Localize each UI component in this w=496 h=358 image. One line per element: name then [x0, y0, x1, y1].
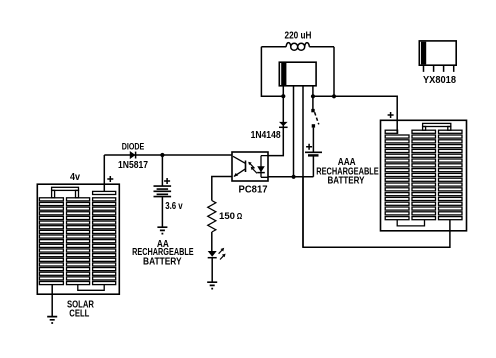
IC pin 3 wire down to bottom return	[302, 86, 304, 248]
solar cell PV1 column 2 fingers	[67, 198, 90, 285]
svg-text:BATTERY: BATTERY	[328, 175, 365, 186]
battery BT2 AAA plates	[305, 152, 322, 155]
optocoupler U2 PC817 box	[232, 152, 268, 181]
IC U1 YX8018 block	[279, 62, 316, 86]
node junction pin4 rail	[311, 94, 315, 98]
switch S1	[311, 109, 319, 128]
svg-text:Ω: Ω	[237, 211, 243, 221]
ground below solar cell	[47, 317, 57, 323]
IC pin 4 wire	[312, 86, 314, 110]
transistor inside PC817 U2	[233, 156, 246, 176]
solar cell PV1 bottom connector U	[78, 285, 104, 291]
wire coil right leg	[333, 47, 335, 97]
wire main rail from solar cell to PC817	[104, 154, 232, 156]
inductor L1 220uH	[261, 43, 334, 51]
solar cell PV1 top bridge bar	[52, 187, 79, 197]
svg-text:4v: 4v	[70, 172, 80, 183]
light arrows inside PC817	[248, 162, 257, 174]
wire coil left leg	[261, 47, 283, 96]
svg-text:CELL: CELL	[69, 309, 89, 320]
svg-text:YX8018: YX8018	[423, 75, 456, 86]
wire right panel return	[303, 177, 450, 248]
wire bottom rail PC817 to battery	[268, 176, 313, 178]
label AA RECHARGEABLE BATTERY	[132, 239, 194, 267]
wire switch to AAA battery	[312, 128, 314, 153]
wire resistor to LED	[211, 232, 213, 251]
solar panel PV2 top bridge bar	[423, 123, 451, 130]
wire PC817 to resistor	[212, 177, 232, 201]
wire battery negative to ground	[161, 197, 163, 228]
AAA battery plus label	[306, 144, 312, 150]
diode D2 1N4148	[279, 122, 288, 127]
resistor R1 150 ohm	[208, 201, 216, 233]
label AAA RECHARGEABLE BATTERY	[316, 157, 379, 186]
solar panel PV2 outline	[381, 120, 467, 231]
wire solar cell negative to ground	[51, 285, 53, 317]
LED D3	[208, 251, 217, 258]
wire LED to ground	[211, 258, 213, 283]
node junction pin1	[281, 94, 285, 98]
svg-text:220 uH: 220 uH	[285, 30, 312, 41]
IC U3 YX8018 package	[419, 41, 456, 72]
node solar + label	[107, 176, 113, 182]
diode D1 1N5817	[130, 152, 136, 159]
svg-text:1N4148: 1N4148	[251, 130, 281, 141]
solar panel PV2 column 2 fingers	[412, 130, 436, 220]
solar cell PV1 outline	[37, 184, 119, 294]
solar panel PV2 column 1 fingers	[385, 130, 409, 220]
LED D3 emission arrows	[219, 248, 226, 260]
solar cell PV1 column 1 fingers	[39, 198, 63, 285]
svg-text:150: 150	[219, 211, 235, 222]
wire PC817 pin4 to 1N4148 and IC pin1	[268, 86, 283, 156]
svg-text:3.6 v: 3.6 v	[165, 201, 183, 212]
solar panel PV2 bottom connector U	[397, 220, 424, 226]
node junction coil right	[332, 94, 336, 98]
wire top rail to right panel	[313, 96, 397, 133]
node right panel plus label	[388, 112, 394, 118]
battery BT1 3.6v plates	[154, 186, 172, 197]
battery BT1 3.6v plus label	[164, 178, 170, 184]
wire battery positive	[161, 155, 163, 186]
svg-text:PC817: PC817	[239, 184, 268, 195]
ground below battery BT1	[157, 227, 167, 233]
IC pin 2 wire	[293, 86, 295, 177]
wire solar cell positive drop	[103, 155, 105, 192]
LED inside PC817 U2	[257, 156, 268, 178]
solar cell PV1 column 3 fingers	[93, 191, 116, 284]
label 150 ohm	[219, 211, 242, 222]
node junction pin2 rail	[292, 175, 296, 179]
wire AAA battery negative	[312, 155, 314, 176]
svg-text:DIODE: DIODE	[122, 141, 145, 152]
svg-text:1N5817: 1N5817	[118, 160, 148, 171]
ground below LED	[207, 282, 217, 288]
svg-text:BATTERY: BATTERY	[143, 256, 182, 267]
node junction rail-battery	[160, 153, 164, 157]
solar panel PV2 column 3 fingers	[439, 130, 463, 220]
